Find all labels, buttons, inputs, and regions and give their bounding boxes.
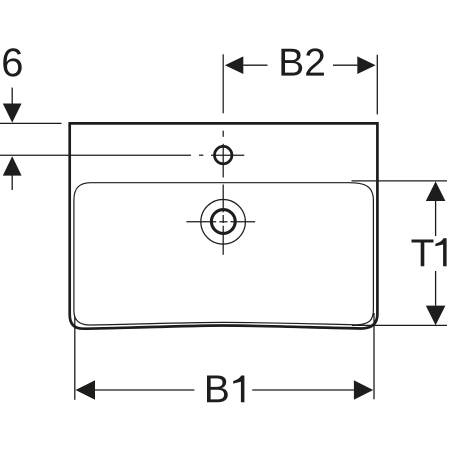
dimension T1 extension lines xyxy=(352,181,448,326)
drain outer circle xyxy=(201,200,246,245)
dimension 6 up arrow xyxy=(3,156,22,175)
dimension B1 extension lines xyxy=(75,313,374,400)
label B2 xyxy=(281,49,302,76)
dimension 6 top extension line xyxy=(0,122,62,124)
dimension B1 right arrow xyxy=(354,380,373,400)
label B1 xyxy=(207,375,228,402)
dimension B2 right extension line xyxy=(376,55,378,115)
drain horizontal center line xyxy=(186,221,255,223)
drain inner circle xyxy=(211,210,235,234)
basin bowl outline xyxy=(74,183,374,325)
faucet hole xyxy=(215,146,232,163)
dimension B2 right arrow xyxy=(357,56,375,74)
label 6 xyxy=(3,48,21,76)
dimension T1 up arrow xyxy=(426,181,446,201)
faucet hole horizontal center line xyxy=(0,154,244,156)
dimension B2 left arrow xyxy=(225,56,243,74)
faucet hole vertical center line xyxy=(222,54,224,255)
washbasin outer outline xyxy=(70,123,378,328)
dimension B1 left arrow xyxy=(76,380,96,399)
dimension T1 down arrow xyxy=(435,271,437,306)
dimension B1 line xyxy=(95,389,354,391)
label T1 xyxy=(411,239,433,266)
dimension 6 down arrow xyxy=(11,88,13,104)
dimension B2 line xyxy=(243,64,357,66)
